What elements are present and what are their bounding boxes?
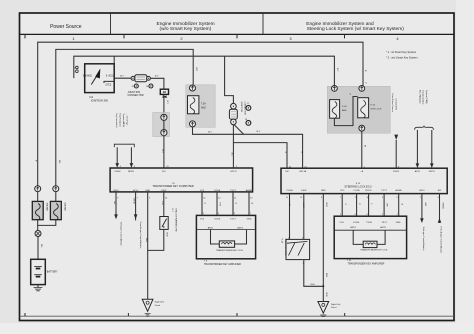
wire: junction connector 2 down to computer GPL2I pin (232, 125, 234, 168)
junction connector left terminal (131, 76, 135, 80)
svg-text:2: 2 (74, 68, 75, 70)
svg-text:Power Source: Power Source (50, 24, 82, 30)
svg-text:B-Y: B-Y (208, 132, 212, 134)
svg-text:TXOK: TXOK (366, 222, 372, 224)
svg-text:L-R: L-R (288, 203, 290, 207)
transponder key coil (right) (353, 230, 385, 247)
svg-text:7.5A: 7.5A (201, 103, 206, 106)
svg-text:W-B: W-B (325, 203, 327, 208)
fuse AM2 top connector (190, 85, 196, 91)
svg-text:(ST2): (ST2) (106, 84, 112, 86)
ignition switch pin 6 IG2 (106, 76, 114, 78)
ground junction dot (322, 285, 324, 287)
steering lock fuse shaded block (327, 86, 390, 133)
bottom tick 1 (24, 313, 26, 316)
svg-text:EB: EB (163, 91, 167, 94)
svg-text:STR LOCK: STR LOCK (371, 108, 382, 110)
svg-text:F-04: F-04 (342, 106, 347, 108)
svg-text:B-R: B-R (195, 68, 197, 72)
wire: T-8 GND to ground (147, 192, 149, 299)
svg-text:System (CAN): System (CAN) (425, 90, 428, 104)
svg-text:System (MPX): System (MPX) (122, 114, 125, 128)
svg-text:GND: GND (321, 190, 326, 192)
ignition switch lever (91, 68, 100, 84)
in-line connector EB (160, 89, 168, 97)
svg-text:From Power Source: From Power Source (391, 94, 394, 113)
junction connector 2 (vertical) top circle (231, 103, 237, 109)
steering lock ECU box (281, 168, 447, 193)
svg-text:1: 1 (74, 71, 75, 73)
svg-text:TXCT: TXCT (381, 190, 387, 192)
junction connector spare terminal J6 (146, 84, 153, 88)
battery ground (34, 285, 43, 291)
amplifier pin numbers (203, 213, 252, 215)
wire color labels between T-8 and amplifier (204, 203, 254, 207)
harness connector circle IH1 (161, 114, 167, 120)
key interlock source bracket (114, 144, 134, 147)
svg-text:EFI: EFI (438, 190, 442, 192)
svg-text:(IG2): (IG2) (108, 76, 113, 78)
svg-text:TXCT: TXCT (230, 190, 236, 192)
header text: Engine Immobilizer and Steering Lock System (306, 21, 404, 32)
fuse AM2 bottom connector (190, 121, 196, 127)
wire: fuse AM2 output run to steering lock ECU GPL1A (193, 127, 303, 168)
wire: branch to steering lock ECU IG2 pin (233, 143, 287, 169)
svg-text:STEERING LOCK: STEERING LOCK (284, 239, 286, 256)
battery box (31, 259, 46, 284)
svg-text:CONNECTOR: CONNECTOR (128, 94, 144, 97)
svg-text:A-C: A-C (230, 153, 233, 157)
svg-text:EFIO: EFIO (419, 190, 424, 192)
bottom tick 4 (344, 313, 346, 316)
T-10 amp top pin numbers (340, 214, 399, 216)
svg-text:(w/o Smart Key System): (w/o Smart Key System) (160, 26, 212, 32)
svg-text:B-Y: B-Y (161, 150, 163, 154)
fuse AM2 value label (201, 103, 206, 110)
svg-text:Right Kick: Right Kick (155, 301, 165, 304)
svg-text:CODE: CODE (353, 190, 360, 192)
junction connector 2 body (229, 109, 237, 119)
wire: fuse F-04 output loop to STR LOCK fuse top (334, 97, 357, 126)
wire: battery bus column 2 (x=55.6) (56, 49, 193, 186)
svg-text:GPLM: GPLM (133, 198, 135, 204)
ignition switch pin 7 ST2 stub (104, 81, 114, 86)
svg-text:EFIO: EFIO (113, 190, 118, 192)
harness connector shaded area (153, 113, 170, 137)
wire: key cylinder to ground junction (304, 260, 324, 287)
ECU top pin numbers (289, 166, 400, 168)
svg-text:30A AM1: 30A AM1 (45, 203, 48, 212)
svg-text:EOO: EOO (133, 190, 138, 192)
wire: unlock warning switch to ground run (148, 229, 164, 250)
wire: EB down to harness connectors (163, 94, 165, 114)
wire: stub at ignition box right corner (113, 56, 115, 64)
wire: STR LOCK fuse to ECU +B (361, 131, 363, 168)
wire: ECU GND down (322, 194, 324, 287)
svg-text:B-Y: B-Y (257, 131, 261, 133)
wire: IG2 output to junction connector (114, 77, 131, 79)
ECU-amp wire labels (344, 204, 404, 207)
wire: between harness connectors (163, 120, 165, 129)
junction connector body (135, 75, 147, 82)
fusible link MAIN (32, 201, 43, 220)
wire: fusible links join (38, 220, 56, 226)
svg-text:TXCT: TXCT (381, 222, 387, 224)
wire: battery bus column 1 (x=37.4) (38, 42, 363, 186)
svg-text:NPKD: NPKD (128, 171, 134, 173)
svg-text:BR: BR (386, 204, 388, 207)
svg-text:BATTERY: BATTERY (47, 271, 58, 274)
wire: ECU EFI stub from engine control module (438, 194, 442, 223)
svg-text:F-10: F-10 (371, 104, 376, 106)
T-8 top pin numbers (120, 166, 238, 168)
svg-text:GND: GND (247, 218, 252, 220)
svg-text:50A AM2: 50A AM2 (64, 203, 67, 212)
svg-text:Panel: Panel (331, 307, 337, 309)
transponder key amplifier T-10 box (334, 216, 406, 258)
wires: ECU to amplifier T-10 (342, 194, 399, 217)
svg-text:I12: I12 (90, 96, 94, 99)
wire: EFIO stub to engine control module (114, 192, 118, 219)
bottom margin tone (0, 323, 474, 334)
junction connector right terminal (147, 76, 151, 80)
unlock warning switch U-7 box (160, 217, 168, 230)
bus wire labels (vertical) (35, 160, 60, 165)
svg-text:UNLOCK WARNING SW: UNLOCK WARNING SW (174, 209, 177, 232)
fuse F-04 AM2 label (342, 106, 347, 112)
svg-text:From Engine Control Module: From Engine Control Module (440, 227, 443, 254)
svg-text:TRANSPONDER KEY COMPUTER: TRANSPONDER KEY COMPUTER (152, 184, 193, 188)
ground IE label (155, 301, 165, 307)
svg-text:ANT1: ANT1 (350, 226, 356, 229)
ECU bottom pin numbers (286, 197, 440, 199)
ignition switch pin 5 AM2 (83, 75, 92, 78)
wire: connector 1 to fusible link 1 (37, 192, 39, 202)
svg-text:To Engine Control Module: To Engine Control Module (422, 227, 425, 252)
transponder key computer T-8 box (110, 168, 253, 192)
T-9 designation label (204, 261, 241, 266)
svg-text:PGSV: PGSV (393, 171, 400, 173)
svg-text:* 2 : w/o Smart Key System: * 2 : w/o Smart Key System (386, 56, 418, 60)
fuse F-04 AM2 top connector (332, 86, 338, 92)
svg-text:TRANSPONDER KEY COIL: TRANSPONDER KEY COIL (360, 248, 388, 251)
right margin tone (456, 0, 474, 334)
wires: ECU to key cylinder (PUSH KSW) (290, 194, 304, 240)
unlock warning switch label (vertical) (171, 209, 177, 232)
T-8 bottom pin numbers (117, 197, 253, 199)
svg-text:Control ECU: Control ECU (395, 99, 398, 111)
CAN bus wire APIO (416, 130, 420, 168)
column tick 3 (236, 34, 238, 38)
in-line connector circle b on AM2 wire (74, 70, 78, 73)
wire: join down to battery connector (37, 225, 39, 230)
battery terminal connector (35, 231, 41, 237)
svg-text:ANT2: ANT2 (237, 227, 243, 230)
svg-text:TRANSPONDER KEY AMPLIFIER: TRANSPONDER KEY AMPLIFIER (348, 262, 385, 265)
fuse AM2 7.5A shaded block (186, 85, 215, 128)
key cylinder label (vertical) (281, 239, 286, 256)
svg-text:TXCT: TXCT (230, 218, 236, 220)
svg-text:(AM2): (AM2) (86, 75, 92, 78)
header divider 2 (262, 14, 264, 35)
column tick 1 (24, 34, 26, 38)
svg-text:PUSH: PUSH (286, 190, 292, 192)
svg-text:B-Y: B-Y (166, 101, 168, 105)
svg-text:— See Page: — See Page (125, 114, 127, 127)
T-10 inner partition (334, 229, 406, 231)
key cylinder pin numbers (288, 238, 305, 265)
header divider 1 (110, 14, 112, 35)
svg-text:LG-B: LG-B (302, 203, 304, 208)
fuse F-10 STR LOCK body (358, 98, 369, 118)
junction connector spare terminal J5 (131, 84, 138, 88)
wire: connector to battery (37, 237, 39, 260)
svg-text:From Engine Control Module: From Engine Control Module (139, 222, 142, 249)
note: smart key variants (386, 50, 418, 60)
junction connector 2 bottom circle (231, 119, 237, 125)
svg-text:W-B: W-B (325, 273, 327, 278)
wires: T-8 to amplifier (VC5 CODE TXCT AGND) (202, 192, 249, 216)
wire: connector 2 to fusible link 2 (55, 192, 57, 202)
svg-text:AM2: AM2 (342, 109, 347, 112)
ground IE (left) (142, 299, 153, 316)
svg-text:W-B: W-B (325, 293, 327, 298)
bottom tick 3 (236, 313, 238, 316)
PGSV source arrow (394, 135, 398, 169)
svg-text:RXCK: RXCK (366, 190, 373, 192)
in-line connector circle a on AM2 wire (74, 66, 78, 69)
junction connector 2 spare terminal J8 (245, 119, 251, 125)
svg-text:GND: GND (396, 222, 401, 224)
svg-text:JUNCTION: JUNCTION (240, 102, 242, 113)
svg-text:ANT2: ANT2 (380, 226, 386, 229)
fuse F-10 bottom connector (359, 125, 365, 131)
wire: KSW to unlock warning switch (163, 192, 165, 217)
svg-text:Steering Lock System (w/ Smart: Steering Lock System (w/ Smart Key Syste… (307, 26, 404, 32)
svg-text:CODE: CODE (214, 218, 221, 220)
svg-text:W-B: W-B (166, 233, 168, 238)
svg-text:CODE: CODE (353, 222, 360, 224)
harness connector circle IH2 (161, 130, 167, 136)
svg-text:Engine Immobilizer System and: Engine Immobilizer System and (306, 21, 374, 27)
wire: EOO stub from engine control module (134, 192, 138, 221)
svg-text:NIP12: NIP12 (429, 171, 436, 173)
svg-text:STEERING LOCK ECU: STEERING LOCK ECU (344, 184, 371, 188)
svg-text:APIO: APIO (415, 170, 421, 173)
junction connector 2 label (vertical) (240, 102, 245, 116)
wire: junction connector to EB connector (150, 78, 164, 89)
svg-text:W-B: W-B (310, 284, 315, 286)
CAN bus brace (415, 126, 434, 130)
wire: drop to junction connector (x=224.6) (225, 56, 234, 103)
fuse F-10 STR LOCK top connector (359, 86, 365, 92)
battery feed connector 2 (53, 186, 59, 192)
wire: AM2 feed from ignition switch (y=56 run) (74, 56, 335, 85)
svg-text:B-Y: B-Y (155, 75, 159, 77)
steering lock ECU title (344, 183, 371, 188)
svg-text:W: W (364, 145, 366, 147)
svg-text:Bus / Multiplex: Bus / Multiplex (418, 90, 421, 104)
ground EC label (331, 303, 341, 309)
T-9 inner partition (196, 229, 255, 231)
junction connector 2 spare terminal J7 (246, 103, 251, 110)
ignition switch I12 box (85, 64, 115, 93)
svg-text:GND: GND (145, 190, 150, 192)
wire: key interlock to NPKD pin (130, 147, 134, 168)
svg-text:AGND: AGND (396, 189, 403, 192)
svg-text:GPLM: GPLM (441, 203, 443, 209)
svg-text:Key Interlock &: Key Interlock & (115, 114, 118, 129)
transponder key amplifier T-9 box (196, 215, 255, 258)
key cylinder steering lock box (286, 239, 310, 259)
bottom tick 2 (127, 313, 129, 316)
svg-text:W-B: W-B (145, 238, 147, 243)
T-8 title (152, 183, 193, 188)
wire: junction connector 2 diagonal to output run (234, 125, 244, 135)
svg-text:Panel: Panel (155, 305, 161, 307)
svg-text:GPL1A: GPL1A (299, 170, 307, 173)
fuse F-10 STR LOCK label (371, 104, 382, 110)
svg-text:B-Y: B-Y (120, 75, 124, 77)
svg-text:AGND: AGND (246, 189, 253, 192)
svg-text:Right Kick: Right Kick (331, 303, 341, 306)
CAN bus wire NIP12 (430, 130, 434, 168)
svg-text:IGNITION SW: IGNITION SW (91, 99, 108, 103)
svg-text:* 1 : w/ Smart Key System: * 1 : w/ Smart Key System (386, 50, 416, 54)
svg-text:TRANSPONDER KEY COIL: TRANSPONDER KEY COIL (216, 249, 244, 252)
svg-text:AM2: AM2 (201, 107, 206, 110)
wire: key interlock to IGSW pin (115, 147, 119, 168)
svg-text:GPL2I: GPL2I (230, 171, 237, 173)
junction connector label (128, 91, 144, 97)
svg-text:TRANSPONDER KEY AMPLIFIER: TRANSPONDER KEY AMPLIFIER (204, 263, 241, 266)
fuse F-04 AM2 body (330, 100, 340, 119)
key interlock label (vertical) (115, 114, 127, 129)
svg-text:ANT1: ANT1 (208, 227, 214, 230)
wire: ECU EFIO stub to engine control module (420, 194, 424, 223)
PGSV source label (vertical) (391, 94, 397, 113)
column tick 4 (344, 34, 346, 38)
svg-text:Key Reminder: Key Reminder (119, 114, 122, 127)
CAN bus label (vertical) (418, 90, 428, 105)
svg-text:To Engine Control Module: To Engine Control Module (119, 222, 122, 247)
fuse AM2 body (188, 96, 199, 114)
wire: harness connector down to computer IG2 pin (163, 136, 165, 168)
svg-text:CONNECTOR: CONNECTOR (243, 102, 245, 116)
column tick 2 (123, 34, 125, 38)
svg-text:CODE: CODE (214, 190, 221, 192)
svg-text:B-Y: B-Y (336, 68, 338, 72)
svg-text:P-B: P-B (219, 203, 221, 207)
fusible link AM2 (50, 201, 61, 220)
svg-text:Engine Immobilizer System: Engine Immobilizer System (157, 21, 215, 27)
transponder key coil (left) (211, 230, 247, 248)
svg-text:A-B: A-B (424, 203, 427, 207)
ground EC (right) (318, 302, 329, 317)
svg-text:Communication: Communication (422, 90, 425, 105)
header band bottom line (20, 33, 455, 35)
svg-text:IGSW: IGSW (115, 171, 122, 173)
header text: Engine Immobilizer System (w/o Smart Key System) (157, 21, 215, 32)
battery feed connector 1 (35, 186, 41, 192)
T-10 designation label (347, 260, 385, 265)
bottom grid line (20, 315, 455, 317)
wire: junction to ground EC (322, 286, 324, 301)
